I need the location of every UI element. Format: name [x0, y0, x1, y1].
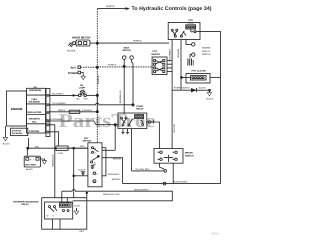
svg-text:CLUTCH: CLUTCH: [197, 70, 206, 73]
svg-text:REGULATOR: REGULATOR: [28, 111, 42, 114]
svg-text:BLACK: BLACK: [207, 97, 214, 100]
svg-text:PRESSURE: PRESSURE: [29, 89, 42, 92]
svg-text:ENGINE: ENGINE: [11, 107, 23, 111]
svg-text:POWER: POWER: [68, 72, 78, 75]
svg-text:PURPLE: PURPLE: [108, 64, 117, 67]
svg-text:PTO: PTO: [189, 19, 194, 22]
svg-text:RELAY: RELAY: [22, 203, 30, 206]
svg-text:ORANGE: ORANGE: [177, 48, 180, 58]
svg-text:STARTER SOLENOID: STARTER SOLENOID: [13, 200, 39, 203]
svg-text:G: G: [94, 180, 96, 183]
svg-text:YELLOW/BLK: YELLOW/BLK: [168, 48, 171, 62]
svg-text:START: START: [136, 105, 144, 108]
svg-text:RED/BLACK: RED/BLACK: [51, 154, 54, 166]
svg-text:PURPLE: PURPLE: [133, 39, 142, 42]
svg-text:BLACK: BLACK: [79, 169, 86, 172]
svg-text:SWITCH: SWITCH: [122, 49, 131, 52]
svg-text:B PURPLE: B PURPLE: [82, 109, 93, 112]
svg-text:BLACK: BLACK: [3, 142, 10, 145]
svg-text:SOLENOID: SOLENOID: [12, 132, 23, 135]
svg-text:PURPLE/WHITE: PURPLE/WHITE: [174, 87, 190, 90]
svg-text:ENGINE: ENGINE: [202, 46, 211, 49]
svg-text:FUSE: FUSE: [58, 152, 64, 155]
svg-text:YELLOW/ RED: YELLOW/ RED: [135, 168, 150, 171]
svg-text:RED: RED: [80, 145, 85, 148]
svg-text:SWITCH: SWITCH: [202, 53, 211, 56]
svg-text:YELLOW: YELLOW: [173, 124, 176, 133]
svg-text:KEY: KEY: [84, 137, 89, 140]
svg-text:SOLENOID: SOLENOID: [29, 101, 41, 104]
svg-text:BLACK: BLACK: [26, 168, 33, 171]
svg-text:GREEN/YELLOW: GREEN/YELLOW: [103, 193, 120, 196]
svg-text:AUX: AUX: [71, 67, 77, 70]
svg-text:LAMP: LAMP: [79, 87, 86, 90]
svg-text:RED: RED: [84, 98, 89, 101]
svg-text:BLUE: BLUE: [75, 205, 81, 208]
svg-text:KILL: KILL: [32, 120, 38, 123]
svg-text:STARTER: STARTER: [12, 129, 22, 132]
svg-text:RELAY: RELAY: [136, 108, 144, 111]
svg-text:SWITCH: SWITCH: [185, 154, 194, 157]
svg-text:RED/WHITE: RED/WHITE: [108, 173, 120, 176]
svg-text:PTO: PTO: [192, 70, 197, 73]
svg-text:BROWN: BROWN: [112, 178, 120, 181]
svg-text:HOUR METER: HOUR METER: [72, 35, 91, 39]
svg-text:-: -: [33, 157, 34, 161]
svg-text:BRAKE: BRAKE: [185, 151, 193, 154]
svg-text:BLACK: BLACK: [199, 87, 206, 90]
svg-text:BLUE/BLACK: BLUE/BLACK: [119, 90, 122, 103]
svg-text:FUEL: FUEL: [32, 98, 38, 101]
svg-text:SWITCH: SWITCH: [83, 140, 92, 143]
svg-text:RED: RED: [80, 230, 85, 233]
svg-text:BLACK: BLACK: [68, 50, 76, 53]
svg-text:SWITCH: SWITCH: [151, 53, 160, 56]
svg-text:STARTER: STARTER: [29, 130, 40, 133]
svg-text:RELAY: RELAY: [187, 22, 195, 25]
svg-text:To Hydraulic Controls (page 34: To Hydraulic Controls (page 34): [132, 6, 212, 12]
svg-text:PURPLE: PURPLE: [97, 75, 100, 84]
svg-text:BLACK/WHITE: BLACK/WHITE: [174, 180, 189, 183]
svg-text:GREEN/WHITE: GREEN/WHITE: [134, 189, 149, 192]
svg-text:PTO: PTO: [153, 50, 158, 53]
svg-text:SAFETY: SAFETY: [202, 50, 211, 53]
svg-text:F8078: F8078: [211, 233, 219, 236]
svg-text:MAGNETO: MAGNETO: [29, 118, 40, 121]
svg-text:BAT TERY: BAT TERY: [25, 163, 36, 166]
svg-text:PURPLE: PURPLE: [106, 5, 115, 8]
svg-text:SEAT: SEAT: [124, 46, 130, 49]
